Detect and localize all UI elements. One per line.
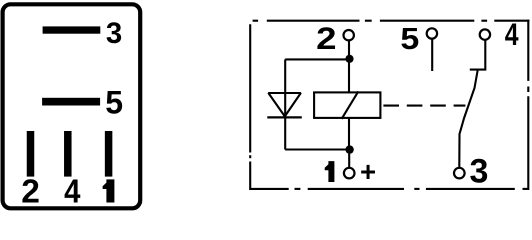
relay package outline	[3, 4, 141, 208]
wire terminal 4 to fixed contact	[470, 40, 486, 69]
terminal 2 circle	[344, 30, 354, 40]
mechanical linkage (dashed)	[383, 105, 465, 107]
wire junction to coil top	[348, 59, 350, 93]
terminal 3 circle	[454, 168, 465, 179]
pin 4 blade (vertical bar)	[64, 131, 72, 177]
pin 3 blade (top horizontal bar)	[43, 26, 101, 33]
wire top branch to diode (horizontal)	[285, 58, 349, 60]
wire left branch vertical through diode	[284, 59, 286, 149]
svg-text:2: 2	[316, 21, 336, 56]
pin 2 blade (vertical bar)	[27, 131, 35, 177]
terminal 5 circle	[427, 28, 437, 38]
terminal 4 circle	[480, 29, 490, 39]
diode V1 triangle	[268, 93, 300, 116]
svg-text:5: 5	[400, 23, 419, 56]
relay coil diagonal	[342, 91, 359, 119]
wire junction to terminal 1	[348, 150, 350, 168]
schematic border bottom side	[249, 188, 527, 190]
svg-text:3: 3	[106, 17, 122, 50]
wire bottom branch (horizontal)	[285, 148, 349, 150]
switch blade	[459, 70, 478, 168]
svg-text:5: 5	[105, 85, 123, 121]
svg-text:2: 2	[21, 174, 40, 211]
wire coil bottom to junction	[348, 118, 350, 150]
junction node bottom	[345, 145, 353, 153]
svg-text:3: 3	[469, 152, 488, 190]
wire terminal2 to junction	[348, 41, 350, 59]
junction node top	[345, 55, 353, 63]
diode V1 cathode bar	[267, 116, 302, 118]
svg-text:+: +	[360, 156, 376, 187]
terminal 1 label	[325, 161, 335, 182]
terminal 5 stub wire	[431, 40, 433, 72]
relay coil K1 box	[314, 92, 380, 118]
pin 5 blade (lower horizontal bar)	[42, 98, 100, 106]
pin 1 label	[103, 179, 115, 202]
pin 1 blade (vertical bar)	[105, 131, 113, 177]
schematic border (dash-dot frame) top side	[253, 20, 530, 22]
terminal 1 circle	[344, 168, 355, 179]
schematic border left side	[249, 24, 251, 190]
svg-text:4: 4	[505, 17, 519, 52]
svg-text:4: 4	[64, 174, 81, 211]
schematic border right side	[527, 20, 529, 190]
